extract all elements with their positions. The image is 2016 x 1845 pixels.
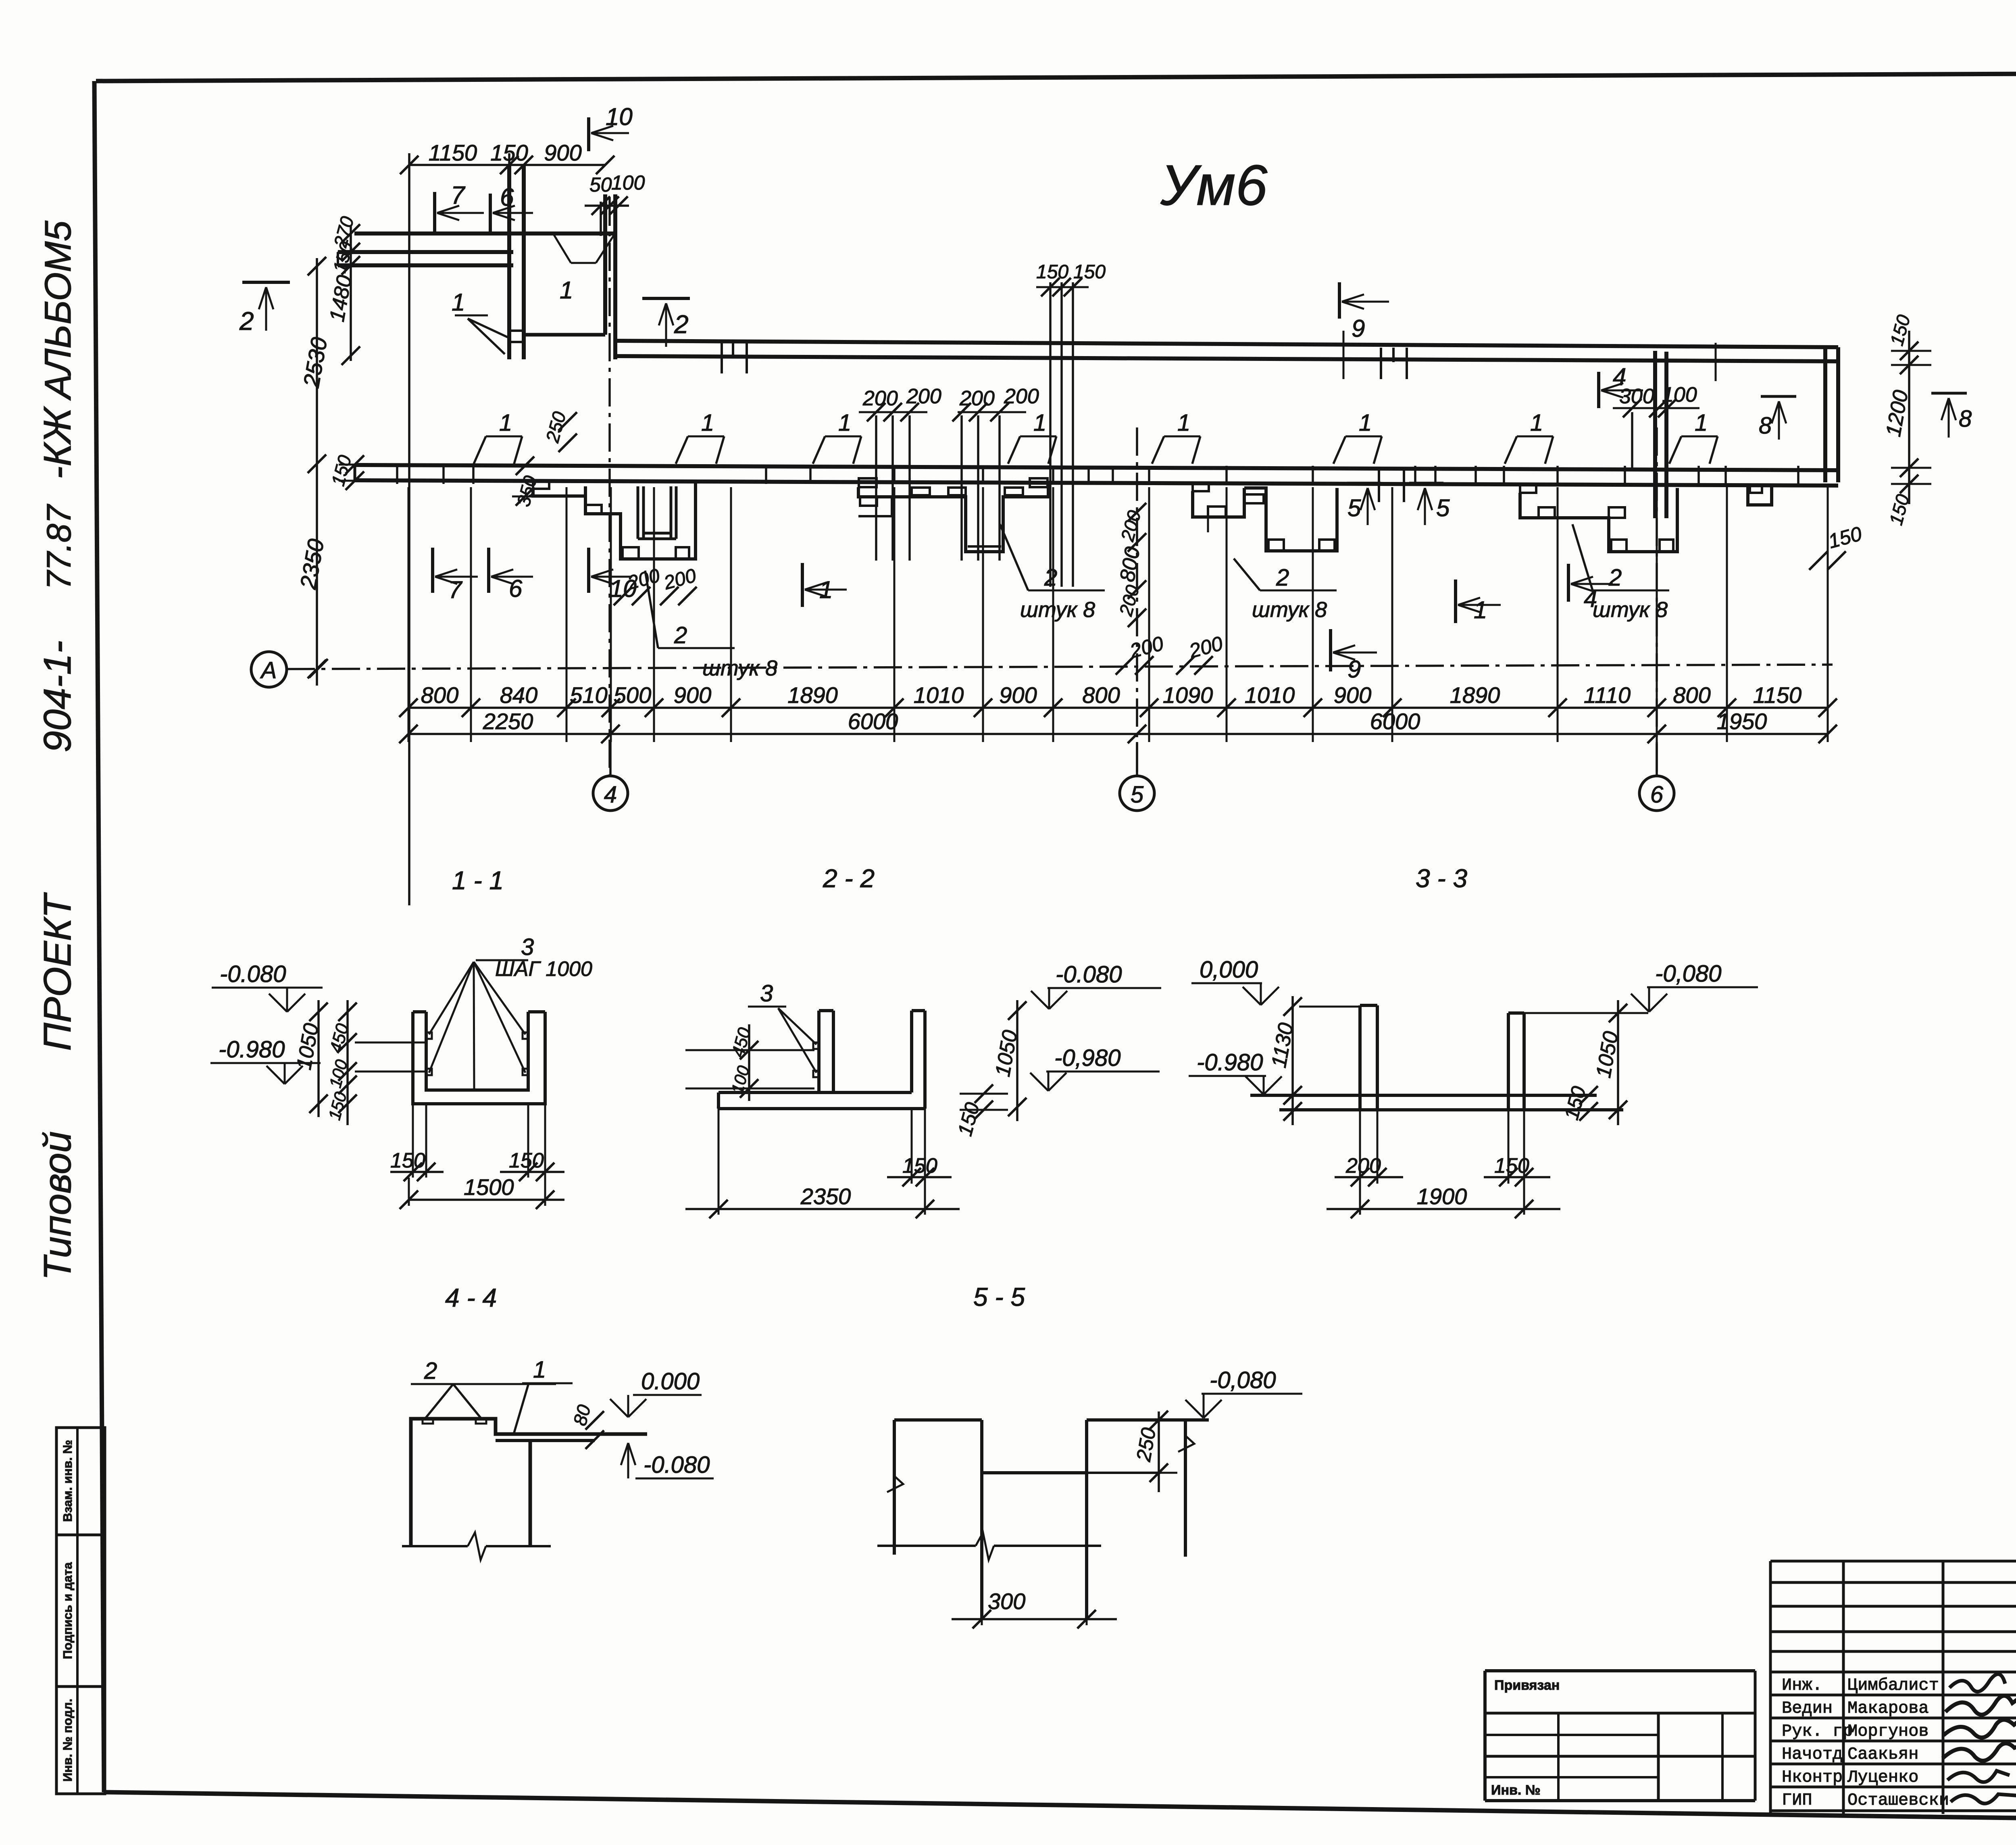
svg-text:штук 8: штук 8 bbox=[1252, 598, 1327, 622]
svg-text:7: 7 bbox=[451, 181, 466, 209]
svg-text:2350: 2350 bbox=[800, 1184, 851, 1209]
svg-text:100: 100 bbox=[611, 171, 645, 194]
svg-text:1890: 1890 bbox=[1450, 682, 1500, 708]
svg-text:Ведин: Ведин bbox=[1782, 1699, 1833, 1718]
svg-text:-0,980: -0,980 bbox=[1054, 1045, 1120, 1071]
svg-text:2 - 2: 2 - 2 bbox=[823, 864, 875, 893]
svg-text:ГИП: ГИП bbox=[1782, 1791, 1812, 1810]
svg-text:800: 800 bbox=[1673, 682, 1710, 708]
svg-text:150: 150 bbox=[1073, 261, 1106, 283]
svg-text:Инв. №: Инв. № bbox=[1491, 1782, 1541, 1798]
svg-text:200: 200 bbox=[1004, 385, 1039, 408]
svg-text:штук 8: штук 8 bbox=[702, 656, 777, 680]
svg-text:3 - 3: 3 - 3 bbox=[1416, 864, 1467, 893]
svg-text:200: 200 bbox=[1345, 1154, 1381, 1178]
svg-text:7: 7 bbox=[448, 576, 463, 603]
svg-text:500: 500 bbox=[614, 682, 651, 708]
svg-text:-0.980: -0.980 bbox=[219, 1036, 285, 1063]
svg-text:2: 2 bbox=[424, 1358, 437, 1384]
svg-text:200: 200 bbox=[959, 387, 995, 410]
svg-text:1: 1 bbox=[533, 1357, 546, 1383]
svg-text:1 - 1: 1 - 1 bbox=[452, 866, 504, 895]
svg-text:штук 8: штук 8 bbox=[1593, 598, 1668, 622]
svg-text:ПРОЕКТ: ПРОЕКТ bbox=[36, 892, 79, 1051]
svg-text:1090: 1090 bbox=[1163, 682, 1213, 708]
svg-text:Привязан: Привязан bbox=[1494, 1678, 1560, 1693]
svg-text:2: 2 bbox=[674, 622, 687, 648]
svg-text:8: 8 bbox=[1959, 406, 1972, 432]
svg-text:10: 10 bbox=[606, 103, 633, 130]
svg-text:1150: 1150 bbox=[429, 140, 477, 165]
svg-text:-0,080: -0,080 bbox=[1210, 1367, 1276, 1393]
svg-text:900: 900 bbox=[544, 140, 581, 165]
svg-text:Цимбалист: Цимбалист bbox=[1847, 1676, 1939, 1695]
svg-text:-0.080: -0.080 bbox=[220, 961, 286, 987]
svg-text:5: 5 bbox=[1347, 494, 1361, 521]
svg-text:Начотд: Начотд bbox=[1782, 1745, 1843, 1764]
svg-text:0,000: 0,000 bbox=[1200, 957, 1258, 983]
svg-text:1: 1 bbox=[452, 289, 465, 316]
svg-text:-0.080: -0.080 bbox=[644, 1452, 710, 1478]
svg-text:1950: 1950 bbox=[1717, 709, 1767, 734]
svg-text:Нконтр: Нконтр bbox=[1782, 1768, 1843, 1787]
svg-text:77.87: 77.87 bbox=[40, 504, 78, 590]
svg-text:1010: 1010 bbox=[1245, 682, 1295, 708]
svg-text:1: 1 bbox=[499, 410, 512, 436]
svg-text:150: 150 bbox=[1036, 261, 1068, 283]
svg-text:Взам. инв. №: Взам. инв. № bbox=[60, 1440, 75, 1522]
svg-text:6000: 6000 bbox=[848, 709, 898, 734]
svg-text:3: 3 bbox=[760, 980, 773, 1007]
svg-text:Рук. гр: Рук. гр bbox=[1782, 1722, 1853, 1741]
svg-text:1: 1 bbox=[819, 576, 833, 603]
svg-text:2: 2 bbox=[1276, 565, 1289, 591]
svg-text:6: 6 bbox=[1650, 782, 1664, 808]
svg-text:1: 1 bbox=[1177, 410, 1190, 436]
svg-text:1150: 1150 bbox=[1753, 682, 1801, 708]
svg-text:АЛЬБОМ5: АЛЬБОМ5 bbox=[37, 220, 79, 400]
svg-text:штук 8: штук 8 bbox=[1020, 598, 1095, 622]
svg-text:200: 200 bbox=[906, 385, 941, 408]
svg-text:840: 840 bbox=[500, 682, 537, 708]
svg-text:900: 900 bbox=[1334, 682, 1371, 708]
svg-text:ШАГ 1000: ШАГ 1000 bbox=[495, 957, 592, 981]
svg-text:2: 2 bbox=[1608, 565, 1622, 591]
svg-text:1500: 1500 bbox=[464, 1174, 514, 1200]
svg-text:6000: 6000 bbox=[1370, 709, 1420, 734]
svg-text:900: 900 bbox=[999, 682, 1037, 708]
svg-text:-КЖ: -КЖ bbox=[36, 406, 79, 479]
svg-text:4: 4 bbox=[604, 782, 617, 808]
svg-text:Осташевски: Осташевски bbox=[1847, 1791, 1949, 1810]
svg-text:150: 150 bbox=[490, 140, 528, 165]
svg-text:Инв. № подл.: Инв. № подл. bbox=[60, 1699, 75, 1782]
svg-text:150: 150 bbox=[509, 1149, 544, 1172]
svg-text:1: 1 bbox=[838, 410, 851, 436]
svg-text:904-1-: 904-1- bbox=[36, 640, 79, 753]
svg-text:А: А bbox=[260, 657, 277, 684]
svg-text:Инж.: Инж. bbox=[1782, 1676, 1822, 1695]
svg-text:Саакьян: Саакьян bbox=[1847, 1745, 1918, 1764]
svg-text:-0,080: -0,080 bbox=[1655, 961, 1721, 987]
svg-text:Макарова: Макарова bbox=[1847, 1699, 1929, 1718]
svg-text:100: 100 bbox=[1662, 383, 1697, 407]
svg-text:300: 300 bbox=[988, 1589, 1025, 1614]
svg-text:5 - 5: 5 - 5 bbox=[973, 1282, 1025, 1311]
svg-text:Подпись и дата: Подпись и дата bbox=[60, 1562, 75, 1659]
svg-text:800: 800 bbox=[421, 682, 458, 708]
svg-text:510: 510 bbox=[570, 682, 607, 708]
svg-text:2: 2 bbox=[674, 310, 689, 339]
svg-text:5: 5 bbox=[1131, 782, 1144, 808]
svg-text:6: 6 bbox=[500, 183, 514, 211]
svg-text:1890: 1890 bbox=[787, 682, 838, 708]
svg-text:800: 800 bbox=[1082, 682, 1120, 708]
svg-text:1: 1 bbox=[1530, 410, 1543, 436]
svg-text:1: 1 bbox=[1695, 410, 1708, 436]
svg-text:6: 6 bbox=[509, 575, 523, 602]
svg-text:900: 900 bbox=[674, 682, 711, 708]
svg-text:3: 3 bbox=[521, 934, 534, 960]
svg-text:2: 2 bbox=[1044, 565, 1057, 591]
svg-text:1900: 1900 bbox=[1417, 1184, 1467, 1209]
svg-text:150: 150 bbox=[902, 1154, 937, 1178]
svg-text:1110: 1110 bbox=[1584, 682, 1631, 708]
svg-text:-0.080: -0.080 bbox=[1056, 961, 1122, 988]
svg-text:5: 5 bbox=[1436, 494, 1450, 521]
svg-text:Типовой: Типовой bbox=[36, 1131, 79, 1280]
svg-text:1010: 1010 bbox=[914, 682, 964, 708]
svg-text:0.000: 0.000 bbox=[641, 1368, 700, 1395]
svg-text:1: 1 bbox=[1359, 410, 1372, 436]
svg-text:1: 1 bbox=[560, 277, 573, 304]
svg-text:8: 8 bbox=[1759, 413, 1772, 439]
svg-text:1: 1 bbox=[1033, 410, 1046, 436]
svg-text:Луценко: Луценко bbox=[1847, 1768, 1918, 1787]
svg-text:1: 1 bbox=[701, 410, 714, 436]
svg-text:4 - 4: 4 - 4 bbox=[445, 1283, 497, 1312]
svg-text:-0.980: -0.980 bbox=[1197, 1049, 1263, 1076]
svg-text:Моргунов: Моргунов bbox=[1847, 1722, 1929, 1741]
svg-text:50: 50 bbox=[589, 173, 612, 196]
svg-text:1: 1 bbox=[1474, 596, 1487, 623]
svg-text:2: 2 bbox=[239, 306, 254, 336]
svg-text:9: 9 bbox=[1352, 315, 1365, 342]
svg-text:9: 9 bbox=[1347, 656, 1361, 683]
svg-text:150: 150 bbox=[390, 1149, 425, 1172]
svg-text:2250: 2250 bbox=[483, 709, 533, 734]
svg-text:Ум6: Ум6 bbox=[1160, 153, 1268, 217]
